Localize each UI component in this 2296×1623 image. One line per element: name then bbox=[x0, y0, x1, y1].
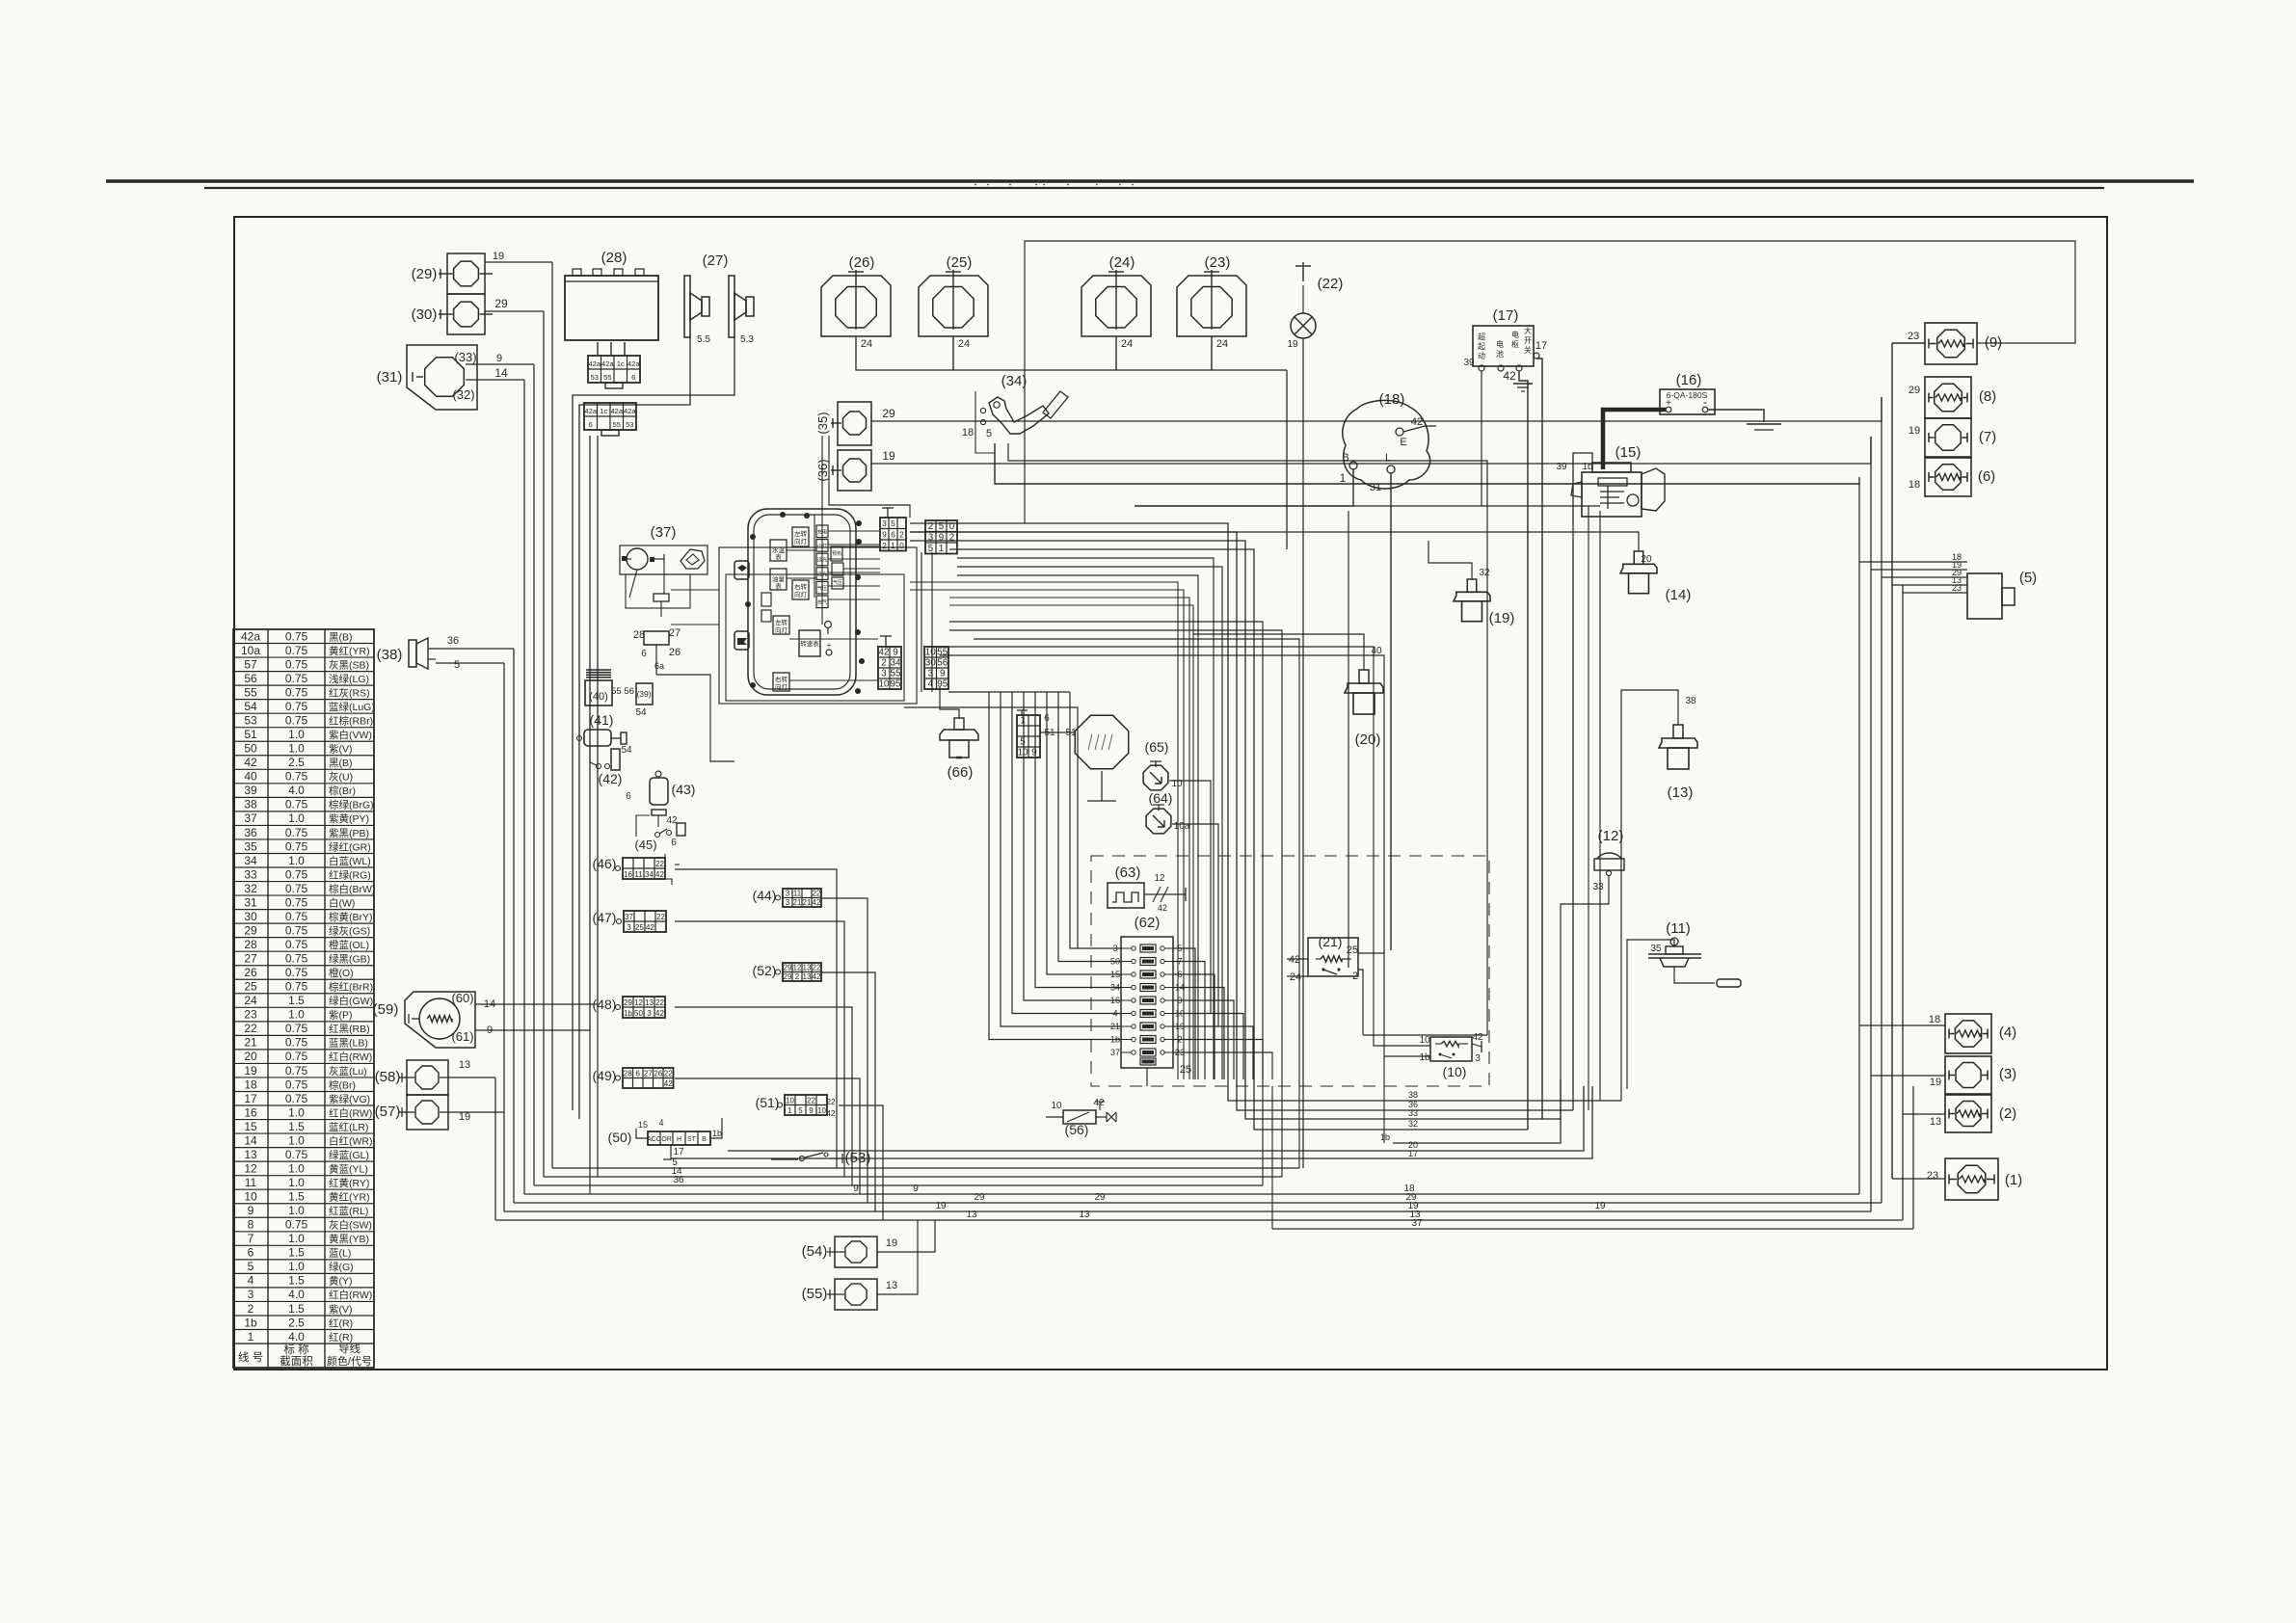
svg-text:0.75: 0.75 bbox=[285, 770, 308, 784]
svg-text:28: 28 bbox=[244, 938, 257, 951]
svg-text:(58): (58) bbox=[375, 1069, 401, 1085]
svg-text:32: 32 bbox=[244, 882, 257, 895]
bottom bundle row 19 bbox=[504, 1211, 1871, 1212]
svg-text:0.75: 0.75 bbox=[285, 629, 308, 643]
svg-text:4.0: 4.0 bbox=[288, 784, 305, 797]
mid-right vertical b bbox=[1588, 506, 1589, 1110]
wire 19 from (29) bbox=[485, 261, 552, 263]
svg-text:0.75: 0.75 bbox=[285, 1036, 308, 1050]
svg-text:B: B bbox=[1342, 452, 1348, 464]
svg-text:2: 2 bbox=[248, 1302, 254, 1316]
svg-text:向灯: 向灯 bbox=[775, 625, 788, 634]
svg-text:动: 动 bbox=[1478, 351, 1485, 360]
svg-text:1.0: 1.0 bbox=[288, 1133, 305, 1147]
svg-text:小灯: 小灯 bbox=[817, 542, 827, 549]
left bundle vertical 14 net bbox=[523, 380, 525, 1194]
svg-text:棕红(BrR): 棕红(BrR) bbox=[329, 981, 373, 994]
svg-text:标 称: 标 称 bbox=[283, 1343, 309, 1356]
svg-text:3: 3 bbox=[882, 519, 887, 528]
left bundle vertical 29 net bbox=[543, 311, 545, 1177]
svg-text:37: 37 bbox=[1110, 1048, 1120, 1057]
svg-text:29: 29 bbox=[494, 297, 508, 310]
lamp (58) bbox=[407, 1060, 448, 1095]
svg-text:5: 5 bbox=[1020, 737, 1026, 748]
svg-text:3: 3 bbox=[248, 1288, 254, 1301]
svg-text:10: 10 bbox=[925, 648, 936, 658]
svg-text:38: 38 bbox=[244, 798, 257, 811]
wire from (18) B down bbox=[1135, 469, 1353, 506]
svg-text:55: 55 bbox=[937, 648, 948, 658]
svg-text:29: 29 bbox=[882, 407, 895, 420]
svg-text:0.75: 0.75 bbox=[285, 1218, 308, 1232]
svg-text:23: 23 bbox=[1927, 1170, 1938, 1182]
svg-text:32: 32 bbox=[1408, 1119, 1418, 1129]
bottom bundle row 5 bbox=[552, 1167, 1299, 1169]
svg-text:55 56: 55 56 bbox=[611, 686, 634, 697]
svg-text:4.0: 4.0 bbox=[288, 1288, 305, 1301]
svg-text:55: 55 bbox=[613, 420, 621, 429]
svg-text:紫黄(PY): 紫黄(PY) bbox=[329, 812, 369, 825]
svg-text:(5): (5) bbox=[2019, 570, 2037, 586]
svg-text:0.75: 0.75 bbox=[285, 1148, 308, 1161]
connector block under (28) lower bbox=[584, 403, 636, 430]
svg-text:9: 9 bbox=[940, 669, 946, 679]
headlamp bus drop bbox=[1286, 370, 1288, 549]
horn button (40) bbox=[586, 669, 611, 671]
svg-text:10: 10 bbox=[244, 1190, 257, 1204]
svg-text:3: 3 bbox=[928, 532, 934, 543]
svg-text:(15): (15) bbox=[1615, 444, 1642, 461]
brake pedal switch (34) bbox=[989, 397, 1049, 434]
flasher lamp (22) bbox=[1302, 262, 1304, 281]
water temp sender (19) bbox=[1467, 579, 1477, 592]
svg-text:42a: 42a bbox=[584, 407, 597, 415]
svg-text:棕(Br): 棕(Br) bbox=[329, 785, 356, 797]
svg-text:29: 29 bbox=[784, 964, 792, 972]
svg-text:棕黄(BrY): 棕黄(BrY) bbox=[329, 911, 373, 923]
svg-text:55: 55 bbox=[244, 685, 257, 699]
svg-text:绿灰(GS): 绿灰(GS) bbox=[329, 924, 370, 937]
svg-text:10: 10 bbox=[879, 679, 890, 690]
svg-text:42: 42 bbox=[1411, 416, 1423, 428]
headlamp (23) bbox=[1177, 276, 1246, 336]
svg-text:18: 18 bbox=[962, 427, 974, 439]
svg-text:蓝黑(LB): 蓝黑(LB) bbox=[329, 1038, 368, 1050]
staircase wire 32 net bbox=[949, 549, 1528, 1130]
svg-text:22: 22 bbox=[827, 1098, 836, 1106]
svg-text:(26): (26) bbox=[849, 254, 875, 271]
svg-text:0.75: 0.75 bbox=[285, 1064, 308, 1078]
svg-text:0.75: 0.75 bbox=[285, 839, 308, 853]
svg-text:27: 27 bbox=[244, 952, 257, 966]
svg-text:左转: 左转 bbox=[775, 618, 788, 626]
svg-text:电: 电 bbox=[1511, 330, 1519, 339]
svg-text:+: + bbox=[827, 641, 832, 650]
shutoff solenoid (56) bbox=[1063, 1110, 1096, 1124]
svg-text:(24): (24) bbox=[1109, 254, 1135, 271]
svg-text:1: 1 bbox=[1340, 471, 1347, 485]
wire from (18) L down bbox=[1390, 473, 1392, 950]
svg-text:1.0: 1.0 bbox=[288, 854, 305, 867]
svg-text:(29): (29) bbox=[412, 266, 438, 282]
svg-text:34: 34 bbox=[645, 870, 654, 879]
svg-text:14: 14 bbox=[244, 1133, 257, 1147]
svg-text:黄红(YR): 黄红(YR) bbox=[329, 645, 370, 657]
cigar lighter (43) bbox=[650, 778, 668, 805]
staircase extra wire a bbox=[957, 558, 1214, 1079]
svg-text:10a: 10a bbox=[241, 644, 260, 657]
lamp (31)(32)(33) combination bbox=[407, 345, 477, 410]
svg-text:ACC: ACC bbox=[647, 1136, 661, 1143]
svg-text:(39): (39) bbox=[636, 689, 651, 699]
svg-text:20: 20 bbox=[244, 1050, 257, 1063]
svg-text:37: 37 bbox=[625, 913, 633, 921]
svg-text:5.3: 5.3 bbox=[740, 334, 754, 345]
cluster mount tab lower bbox=[734, 631, 749, 650]
svg-text:6: 6 bbox=[891, 530, 895, 539]
svg-text:19: 19 bbox=[1594, 1201, 1606, 1211]
svg-text:红棕(RBr): 红棕(RBr) bbox=[329, 715, 373, 728]
svg-text:37: 37 bbox=[1411, 1218, 1423, 1229]
svg-text:15: 15 bbox=[638, 1120, 648, 1130]
battery positive cable (thick) bbox=[1603, 410, 1666, 469]
svg-text:19: 19 bbox=[244, 1064, 257, 1078]
gauge box turn R bbox=[792, 580, 809, 599]
staircase filler e bbox=[910, 590, 1184, 1079]
staircase filler d bbox=[910, 582, 1178, 1079]
svg-text:6: 6 bbox=[636, 1069, 641, 1078]
console surround outer box bbox=[719, 547, 917, 704]
svg-text:42: 42 bbox=[655, 870, 664, 879]
svg-text:33: 33 bbox=[1592, 882, 1604, 892]
svg-text:线 号: 线 号 bbox=[238, 1350, 263, 1364]
svg-text:1.0: 1.0 bbox=[288, 1232, 305, 1245]
svg-text:棕白(BrW): 棕白(BrW) bbox=[329, 883, 375, 895]
staircase wire 38 net bbox=[910, 523, 1621, 1101]
svg-text:2.5: 2.5 bbox=[288, 1316, 305, 1329]
connector 52 wire run bbox=[821, 972, 875, 1211]
svg-text:31: 31 bbox=[1370, 482, 1381, 493]
svg-text:4.0: 4.0 bbox=[288, 1330, 305, 1344]
svg-text:灰蓝(Lu): 灰蓝(Lu) bbox=[329, 1065, 367, 1078]
svg-text:9: 9 bbox=[809, 1106, 814, 1115]
cluster internal links to connectors bbox=[828, 530, 880, 532]
svg-text:19: 19 bbox=[1909, 425, 1920, 437]
connector (44) bbox=[783, 889, 821, 907]
svg-text:6: 6 bbox=[589, 420, 593, 429]
svg-text:0.75: 0.75 bbox=[285, 644, 308, 657]
svg-text:向灯: 向灯 bbox=[775, 682, 788, 691]
console connector grid A bbox=[880, 518, 906, 551]
svg-text:6: 6 bbox=[671, 838, 677, 848]
svg-text:10: 10 bbox=[786, 1096, 794, 1104]
svg-text:黑(B): 黑(B) bbox=[329, 758, 353, 769]
svg-text:1d: 1d bbox=[1582, 462, 1592, 472]
svg-text:42: 42 bbox=[1158, 903, 1167, 913]
svg-text:13: 13 bbox=[803, 972, 812, 981]
wire 33 from (12) bbox=[1561, 876, 1609, 1119]
svg-text:(62): (62) bbox=[1135, 915, 1161, 931]
wire 14 from (31) bbox=[466, 379, 524, 381]
wires at (10) bbox=[940, 647, 1430, 1046]
svg-text:向灯: 向灯 bbox=[794, 537, 808, 545]
svg-text:2.5: 2.5 bbox=[288, 756, 305, 769]
svg-text:6: 6 bbox=[626, 791, 631, 802]
svg-text:13: 13 bbox=[1930, 1116, 1941, 1128]
svg-text:19: 19 bbox=[886, 1237, 897, 1249]
svg-text:29: 29 bbox=[1094, 1192, 1106, 1203]
svg-text:5: 5 bbox=[986, 428, 992, 439]
pedal frame bbox=[975, 391, 995, 453]
svg-text:截面积: 截面积 bbox=[280, 1354, 313, 1368]
svg-text:1c: 1c bbox=[600, 407, 607, 415]
svg-text:13: 13 bbox=[1079, 1210, 1090, 1220]
brake light switch (12) bbox=[1597, 853, 1621, 859]
svg-text:0.75: 0.75 bbox=[285, 952, 308, 966]
svg-text:2: 2 bbox=[1352, 971, 1358, 982]
heater plug (6) bbox=[1925, 458, 1971, 496]
svg-text:37: 37 bbox=[244, 811, 257, 825]
svg-text:(30): (30) bbox=[412, 306, 438, 323]
svg-text:(31): (31) bbox=[377, 369, 403, 386]
svg-text:(7): (7) bbox=[1979, 429, 1996, 445]
svg-text:黄蓝(YL): 黄蓝(YL) bbox=[329, 1162, 368, 1175]
svg-text:55: 55 bbox=[891, 669, 901, 679]
console connector grid C lower bbox=[878, 647, 901, 689]
svg-text:28: 28 bbox=[633, 629, 645, 641]
oil pressure sender (20) bbox=[1359, 670, 1369, 683]
bottom bundle row 36 bbox=[534, 1184, 1263, 1186]
left bundle vertical 5 net bbox=[503, 663, 505, 1211]
gauge box fuel bbox=[770, 569, 787, 590]
ground at (17) bbox=[1513, 383, 1533, 385]
svg-text:(52): (52) bbox=[753, 963, 777, 978]
light switch (53) bbox=[771, 1158, 798, 1160]
wire 35 to (11) bbox=[1627, 940, 1674, 1089]
svg-text:5: 5 bbox=[891, 519, 895, 528]
svg-text:1.5: 1.5 bbox=[288, 1302, 305, 1316]
lamp (35) bbox=[838, 402, 871, 445]
svg-text:(64): (64) bbox=[1149, 790, 1173, 806]
svg-text:51: 51 bbox=[244, 728, 257, 741]
staircase filler g bbox=[949, 605, 1193, 1079]
svg-text:36: 36 bbox=[244, 826, 257, 839]
svg-text:绿(G): 绿(G) bbox=[329, 1261, 354, 1273]
svg-text:(32): (32) bbox=[452, 387, 474, 402]
svg-text:3: 3 bbox=[627, 923, 631, 932]
svg-text:17: 17 bbox=[673, 1147, 684, 1157]
connector 46 wire run bbox=[675, 869, 837, 1168]
svg-text:53: 53 bbox=[626, 420, 633, 429]
svg-text:35: 35 bbox=[1650, 944, 1662, 954]
svg-text:6: 6 bbox=[631, 373, 635, 382]
svg-text:0: 0 bbox=[899, 542, 904, 550]
svg-text:0.75: 0.75 bbox=[285, 1022, 308, 1035]
svg-text:(3): (3) bbox=[1999, 1066, 2016, 1082]
connector (5) bbox=[1967, 573, 2002, 619]
lamp (30) bbox=[447, 294, 485, 334]
svg-text:3: 3 bbox=[881, 669, 887, 679]
svg-text:1.5: 1.5 bbox=[288, 994, 305, 1007]
svg-text:29: 29 bbox=[1909, 385, 1920, 396]
svg-text:白红(WR): 白红(WR) bbox=[329, 1134, 373, 1147]
svg-text:29: 29 bbox=[784, 972, 792, 981]
svg-text:42: 42 bbox=[664, 1079, 673, 1088]
svg-text:起: 起 bbox=[1478, 342, 1485, 351]
bottom bundle row 37 bbox=[1272, 1228, 1913, 1230]
staircase wire from console 5 net bbox=[949, 622, 1263, 1185]
svg-text:0.75: 0.75 bbox=[285, 938, 308, 951]
svg-text:棕(Br): 棕(Br) bbox=[329, 1078, 356, 1091]
row 1b net bbox=[1393, 1079, 1561, 1143]
svg-text:29: 29 bbox=[624, 998, 632, 1007]
cluster misc symbols bbox=[825, 622, 832, 628]
connector 47 wire run bbox=[675, 921, 844, 1177]
console feed vertical bbox=[821, 436, 823, 509]
svg-text:(4): (4) bbox=[1999, 1024, 2016, 1041]
svg-text:19: 19 bbox=[459, 1111, 470, 1123]
wires into (5) bbox=[1859, 561, 1967, 563]
bottom bundle row 14 bbox=[544, 1176, 1282, 1178]
svg-text:(38): (38) bbox=[377, 647, 403, 663]
svg-text:(35): (35) bbox=[815, 412, 830, 434]
svg-text:(51): (51) bbox=[756, 1095, 780, 1110]
svg-text:2: 2 bbox=[795, 972, 800, 981]
oil sender (66) bbox=[954, 718, 964, 730]
svg-text:38: 38 bbox=[1685, 696, 1696, 706]
headlamp (26) bbox=[821, 276, 891, 336]
alternator (18) bbox=[1343, 400, 1430, 489]
lamp (3) bbox=[1945, 1056, 1991, 1094]
right bundle vertical net23 bbox=[1891, 343, 1893, 1179]
left bundle vertical 36 net bbox=[513, 649, 515, 1203]
svg-text:22: 22 bbox=[244, 1022, 257, 1035]
svg-text:21: 21 bbox=[803, 898, 812, 907]
preheat relay (17) bbox=[1473, 326, 1534, 366]
svg-text:24: 24 bbox=[861, 338, 872, 350]
svg-text:42: 42 bbox=[655, 1009, 664, 1018]
svg-text:超: 超 bbox=[1478, 332, 1485, 341]
svg-text:(61): (61) bbox=[451, 1029, 473, 1044]
svg-text:1.0: 1.0 bbox=[288, 1204, 305, 1217]
connector 48 wire run bbox=[675, 1007, 852, 1185]
wire 23 top to (9) bbox=[1892, 342, 1925, 344]
svg-text:4: 4 bbox=[658, 1118, 663, 1128]
connector (48) bbox=[623, 997, 665, 1018]
svg-text:39: 39 bbox=[1463, 358, 1475, 368]
lamp (29) front lamp bbox=[447, 253, 485, 294]
svg-text:B: B bbox=[702, 1136, 707, 1143]
headlamp (24) bbox=[1081, 276, 1151, 336]
svg-text:34: 34 bbox=[244, 854, 257, 867]
svg-text:29: 29 bbox=[974, 1192, 985, 1203]
svg-text:(41): (41) bbox=[590, 712, 614, 728]
svg-text:1b: 1b bbox=[1419, 1052, 1430, 1063]
gauge box turn L bbox=[792, 527, 809, 546]
svg-text:(13): (13) bbox=[1668, 785, 1694, 801]
svg-text:0.75: 0.75 bbox=[285, 882, 308, 895]
svg-text:0.75: 0.75 bbox=[285, 798, 308, 811]
svg-text:56: 56 bbox=[244, 672, 257, 685]
svg-text:42a: 42a bbox=[601, 359, 614, 368]
svg-text:3: 3 bbox=[786, 890, 790, 898]
svg-text:黄红(YR): 黄红(YR) bbox=[329, 1191, 370, 1204]
svg-text:11: 11 bbox=[793, 890, 802, 898]
svg-text:20: 20 bbox=[1641, 554, 1652, 565]
svg-text:池: 池 bbox=[1496, 349, 1504, 359]
row 33 horizontal to switch 12 bbox=[1363, 1034, 1487, 1036]
staircase wire 33 net bbox=[910, 541, 1561, 1119]
row 20 net bbox=[728, 1086, 1584, 1151]
connector (52) bbox=[783, 963, 821, 981]
svg-text:(50): (50) bbox=[608, 1130, 632, 1145]
mid-right vertical a bbox=[1599, 511, 1601, 1101]
svg-text:(60): (60) bbox=[451, 991, 473, 1005]
svg-text:42: 42 bbox=[666, 815, 678, 826]
svg-text:53: 53 bbox=[591, 373, 599, 382]
svg-text:1.0: 1.0 bbox=[288, 1105, 305, 1119]
svg-text:OR: OR bbox=[661, 1136, 672, 1143]
svg-text:29: 29 bbox=[244, 923, 257, 937]
svg-text:39: 39 bbox=[1556, 462, 1567, 472]
wires from (17) down bbox=[1481, 371, 1482, 506]
svg-text:36: 36 bbox=[673, 1175, 684, 1185]
svg-text:19: 19 bbox=[493, 251, 504, 262]
svg-text:1.0: 1.0 bbox=[288, 1260, 305, 1273]
svg-text:8: 8 bbox=[248, 1218, 254, 1232]
svg-text:19: 19 bbox=[935, 1201, 947, 1211]
svg-text:0.75: 0.75 bbox=[285, 980, 308, 994]
svg-text:充电: 充电 bbox=[817, 528, 827, 536]
svg-text:11: 11 bbox=[634, 870, 643, 879]
wire 40 from (20) bbox=[1193, 634, 1364, 670]
svg-text:3: 3 bbox=[1475, 1053, 1481, 1064]
svg-text:6: 6 bbox=[248, 1246, 254, 1260]
svg-text:32: 32 bbox=[1479, 568, 1490, 578]
headlamp (25) bbox=[919, 276, 988, 336]
svg-text:1.0: 1.0 bbox=[288, 1161, 305, 1175]
right bundle vertical net18 bbox=[1858, 484, 1860, 1194]
svg-text:13: 13 bbox=[966, 1210, 977, 1220]
wires from (38) bbox=[440, 648, 514, 650]
wire from (58) bbox=[440, 1077, 495, 1078]
svg-text:绿蓝(GL): 绿蓝(GL) bbox=[329, 1149, 369, 1161]
svg-text:6: 6 bbox=[641, 649, 647, 659]
svg-text:(63): (63) bbox=[1115, 865, 1141, 881]
svg-text:1.0: 1.0 bbox=[288, 728, 305, 741]
svg-text:50: 50 bbox=[244, 742, 257, 756]
svg-text:0.75: 0.75 bbox=[285, 910, 308, 923]
title rule lower bbox=[204, 187, 2104, 189]
svg-text:22: 22 bbox=[655, 998, 664, 1007]
relay (21) bbox=[1308, 938, 1358, 976]
gauge small box a bbox=[773, 616, 789, 634]
svg-text:E: E bbox=[1400, 437, 1406, 448]
svg-text:1: 1 bbox=[891, 542, 895, 550]
svg-text:0.75: 0.75 bbox=[285, 1092, 308, 1105]
wire 9 from (31) bbox=[466, 363, 534, 365]
svg-text:右转: 右转 bbox=[775, 675, 788, 683]
svg-text:(42): (42) bbox=[599, 771, 623, 786]
svg-text:预热: 预热 bbox=[832, 550, 841, 557]
svg-text:0.75: 0.75 bbox=[285, 672, 308, 685]
lamp (7) bbox=[1925, 418, 1971, 457]
svg-text:(55): (55) bbox=[802, 1286, 828, 1302]
console surround inner box bbox=[726, 574, 904, 701]
lamp (55) bbox=[835, 1279, 877, 1310]
svg-text:0.75: 0.75 bbox=[285, 1050, 308, 1063]
svg-text:1.5: 1.5 bbox=[288, 1274, 305, 1288]
